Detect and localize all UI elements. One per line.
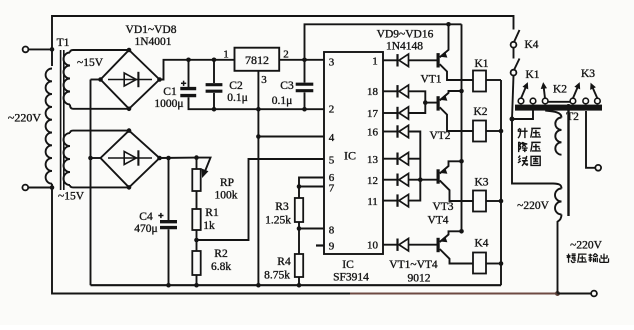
- svg-text:VT3: VT3: [432, 201, 453, 213]
- svg-text:16: 16: [367, 127, 379, 139]
- wire: tap5 to output live: [586, 111, 595, 168]
- svg-text:3: 3: [329, 57, 335, 69]
- capacitor C1 1000u: [186, 58, 191, 63]
- diode VD11 (pin17): [383, 112, 399, 114]
- wire: VD9 to VT1 base: [409, 59, 437, 61]
- svg-text:SF3914: SF3914: [333, 272, 369, 284]
- svg-text:~220V: ~220V: [570, 240, 602, 252]
- svg-text:RP: RP: [220, 177, 234, 189]
- svg-text:9: 9: [329, 241, 335, 253]
- capacitor C2 0.1u: [212, 58, 217, 63]
- svg-text:1000μ: 1000μ: [154, 98, 183, 110]
- wire: bottom neutral reddish scan segment: [350, 293, 558, 295]
- bridge rectifier VD5-VD8: [101, 131, 160, 188]
- wire: tap node to tap2 stem: [512, 105, 533, 119]
- wire: bridge2 plus to divider: [160, 157, 197, 159]
- tap selector bar: [515, 105, 602, 111]
- diode VD14 (pin12): [383, 179, 399, 181]
- output terminal top: [595, 165, 601, 171]
- svg-text:K1: K1: [474, 58, 488, 70]
- switch K4 contact (series): [514, 30, 520, 42]
- wire: T2 bottom to neutral: [558, 215, 562, 294]
- wire: bridge2 minus joins rail: [91, 157, 101, 159]
- resistor R2 6.8k: [192, 251, 200, 275]
- svg-text:R3: R3: [275, 201, 289, 213]
- svg-text:10: 10: [367, 240, 379, 252]
- relay K1 moving contact arrow: [521, 88, 526, 99]
- svg-text:0.1μ: 0.1μ: [227, 92, 248, 104]
- transistor VT3: [437, 169, 440, 183]
- svg-text:9012: 9012: [408, 273, 431, 285]
- tap terminal 2: [530, 98, 536, 104]
- tap terminal 4: [570, 98, 576, 104]
- svg-text:VT1: VT1: [420, 74, 441, 86]
- relay coil K3: [473, 191, 486, 212]
- svg-text:VD1~VD8: VD1~VD8: [126, 24, 177, 36]
- svg-text:K2: K2: [473, 106, 487, 118]
- svg-text:12: 12: [367, 175, 378, 187]
- svg-text:17: 17: [367, 108, 379, 120]
- svg-text:K1: K1: [525, 69, 539, 81]
- wire: +12V top rail: [305, 24, 462, 60]
- tap terminal 5: [583, 98, 589, 104]
- svg-text:470μ: 470μ: [134, 223, 157, 235]
- svg-text:IC: IC: [344, 149, 356, 163]
- svg-text:1: 1: [223, 49, 229, 61]
- wire: VD12/13/14/15 join to VT3 base: [409, 132, 421, 201]
- wire: switches to tap node: [512, 76, 514, 120]
- svg-text:K4: K4: [474, 238, 488, 250]
- svg-text:1: 1: [372, 56, 378, 68]
- label 升压降压线圈: [518, 128, 528, 138]
- transformer T1 core: [60, 50, 62, 190]
- svg-text:~15V: ~15V: [77, 57, 104, 69]
- label 稳压输出: [566, 254, 575, 263]
- svg-text:~220V: ~220V: [8, 111, 41, 125]
- svg-text:2: 2: [329, 104, 335, 116]
- resistor R4 8.75k: [295, 254, 303, 277]
- tap terminal 6: [595, 98, 601, 104]
- tap terminal 1: [518, 98, 524, 104]
- svg-text:T1: T1: [57, 37, 70, 49]
- relay K3 moving contact arrows: [573, 88, 578, 99]
- transformer T1 secondary 2: [70, 131, 128, 134]
- bridge rectifier VD1-VD4: [101, 50, 160, 109]
- svg-text:8: 8: [329, 225, 335, 237]
- svg-text:R2: R2: [214, 248, 228, 260]
- resistor R1 1k: [196, 191, 198, 209]
- svg-text:C4: C4: [139, 211, 153, 223]
- svg-text:7812: 7812: [245, 53, 269, 67]
- svg-text:VD9~VD16: VD9~VD16: [377, 29, 434, 41]
- transformer T1 primary winding: [46, 69, 52, 184]
- capacitor C4 470u: [166, 156, 171, 161]
- wire: top mains rail to tap switches: [52, 16, 514, 66]
- svg-text:~15V: ~15V: [58, 191, 85, 203]
- svg-text:2: 2: [283, 49, 289, 61]
- wire: bridge1 minus stub: [91, 79, 101, 81]
- svg-text:13: 13: [367, 154, 379, 166]
- svg-text:R4: R4: [277, 256, 291, 268]
- wire: relay common to ground: [500, 80, 502, 285]
- svg-text:7: 7: [329, 183, 335, 195]
- wire: IC pin6 pin7 to R3: [299, 178, 324, 199]
- relay K2 moving contact arrow: [544, 88, 545, 98]
- resistor R3 1.25k: [295, 198, 303, 222]
- svg-text:VT1~VT4: VT1~VT4: [389, 259, 438, 271]
- wire: 7812 out to IC pin3: [279, 59, 324, 61]
- diode VD16 (pin10): [383, 244, 399, 246]
- wire: junction to IC pin5: [197, 159, 325, 240]
- transistor VT1 9012: [437, 53, 440, 67]
- tap terminal 3: [542, 98, 548, 104]
- regulator 7812: [235, 48, 280, 71]
- wire: minus rail vertical: [90, 80, 92, 286]
- wire: 7812 gnd column: [257, 71, 259, 285]
- wire: IC pin4 to gnd column: [258, 136, 324, 138]
- wire: tap node down to T2 series coil: [512, 119, 562, 189]
- node R1/R2 junction: [196, 230, 198, 251]
- svg-text:3: 3: [261, 74, 267, 86]
- diode VD13 (pin13): [383, 158, 399, 160]
- diode VD12 (pin16): [383, 131, 399, 133]
- svg-text:IC: IC: [342, 259, 354, 271]
- wire: bridge1 plus to supply rail: [160, 60, 235, 80]
- T2 upper winding (tapped section): [545, 111, 561, 118]
- wire: VD10/VD11 join to VT2 base: [409, 91, 426, 113]
- wire: tap3 to tap4 link: [548, 101, 570, 103]
- svg-text:5: 5: [329, 155, 335, 167]
- svg-text:1N4001: 1N4001: [134, 36, 171, 48]
- pin 9 stub: [316, 244, 324, 246]
- relay coil K1: [473, 71, 486, 92]
- svg-text:4: 4: [329, 132, 335, 144]
- svg-text:0.1μ: 0.1μ: [272, 95, 293, 107]
- diode VD15 (pin11): [383, 200, 399, 202]
- svg-text:VT2: VT2: [429, 130, 450, 142]
- svg-text:100k: 100k: [215, 190, 238, 202]
- svg-text:8.75k: 8.75k: [264, 270, 290, 282]
- op-amp/IC U1 SF3914 body: [324, 52, 383, 254]
- node R3/R4 to IC pin8: [298, 222, 300, 254]
- T2 series winding: [555, 189, 561, 215]
- svg-text:18: 18: [367, 86, 379, 98]
- node: T2 winding bottom on neutral: [555, 291, 560, 296]
- node: line input joins T1 primary top: [50, 47, 55, 52]
- svg-text:~220V: ~220V: [517, 200, 549, 212]
- input terminal top (line): [23, 47, 29, 53]
- svg-text:6.8k: 6.8k: [211, 261, 231, 273]
- capacitor C3 0.1u: [304, 60, 306, 83]
- switch K1 contact (series): [513, 48, 515, 59]
- svg-text:11: 11: [367, 196, 378, 208]
- relay coil K2: [473, 121, 486, 142]
- potentiometer RP 100k: [194, 155, 199, 160]
- svg-text:R1: R1: [205, 207, 219, 219]
- wire: ground bus row to IC pin2: [189, 108, 325, 110]
- wire: neutral down and along bottom: [52, 184, 350, 294]
- T2 core: [567, 104, 569, 216]
- transistor VT4: [437, 238, 440, 252]
- ground bus bottom: [91, 284, 502, 286]
- svg-text:1N4148: 1N4148: [386, 41, 423, 53]
- svg-text:VT4: VT4: [427, 215, 448, 227]
- svg-text:1k: 1k: [203, 220, 215, 232]
- svg-text:C2: C2: [229, 80, 243, 92]
- relay coil K4: [473, 253, 486, 274]
- svg-text:K4: K4: [524, 39, 538, 51]
- svg-text:K3: K3: [581, 68, 595, 80]
- diode VD10 (pin18): [383, 90, 399, 92]
- wire: VD16 to VT4 base: [409, 244, 437, 246]
- svg-text:K3: K3: [474, 177, 488, 189]
- transistor VT2: [437, 96, 440, 110]
- svg-text:K2: K2: [553, 84, 567, 96]
- output terminal bottom: [591, 291, 597, 297]
- +12V emitter feed vertical: [461, 24, 463, 231]
- svg-text:1.25k: 1.25k: [265, 215, 291, 227]
- svg-text:C1: C1: [163, 86, 177, 98]
- input terminal bottom (neutral): [22, 185, 28, 191]
- diode VD9 (pin1): [383, 59, 399, 61]
- svg-text:C3: C3: [280, 80, 294, 92]
- transformer T1 secondary 1: [70, 50, 128, 53]
